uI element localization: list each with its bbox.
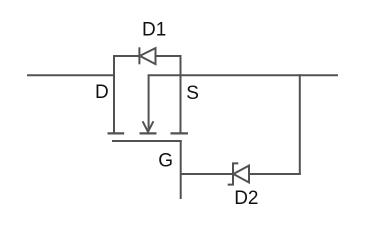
svg-text:D2: D2: [234, 188, 258, 209]
svg-text:D: D: [95, 82, 109, 103]
wire: gate vertical (node G): [180, 140, 182, 199]
wire: feedback vertical to top rail: [299, 74, 301, 174]
wire: D1 loop top, anode side: [155, 55, 181, 57]
svg-text:S: S: [186, 83, 199, 104]
wire: right rail from body-tap corner: [149, 75, 338, 130]
diode D2 triangle: [233, 166, 249, 183]
transistor Q1 drain bar: [108, 132, 125, 134]
svg-text:D1: D1: [142, 20, 166, 41]
diode D2 cathode bar (zener): [228, 163, 239, 184]
diode D1 cathode bar: [138, 47, 140, 64]
svg-text:G: G: [158, 151, 173, 172]
transistor Q1 gate plate: [112, 140, 182, 142]
wire: left rail to node D: [27, 74, 115, 76]
transistor Q1 body arrow: [143, 121, 154, 132]
transistor Q1 body bar: [140, 132, 157, 134]
diode D1 triangle: [140, 48, 156, 64]
transistor Q1 source bar: [171, 132, 189, 134]
wire: D1 loop top, cathode side: [113, 55, 140, 57]
wire: D2 anode to feedback vertical: [249, 173, 301, 175]
wire: source vertical (node S): [180, 55, 182, 133]
wire: gate to D2 cathode: [181, 173, 233, 175]
wire: drain vertical (node D): [113, 55, 115, 133]
